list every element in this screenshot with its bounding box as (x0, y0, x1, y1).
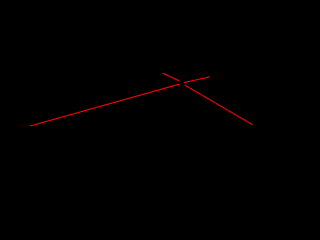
wire ray to upper-right (184, 77, 210, 83)
wire long ray to lower-left (soft underlay) (30, 73, 252, 126)
wire long ray to lower-left (30, 84, 180, 126)
wire ray to lower-right (185, 85, 253, 125)
wire short ray to upper-left (163, 73, 180, 81)
